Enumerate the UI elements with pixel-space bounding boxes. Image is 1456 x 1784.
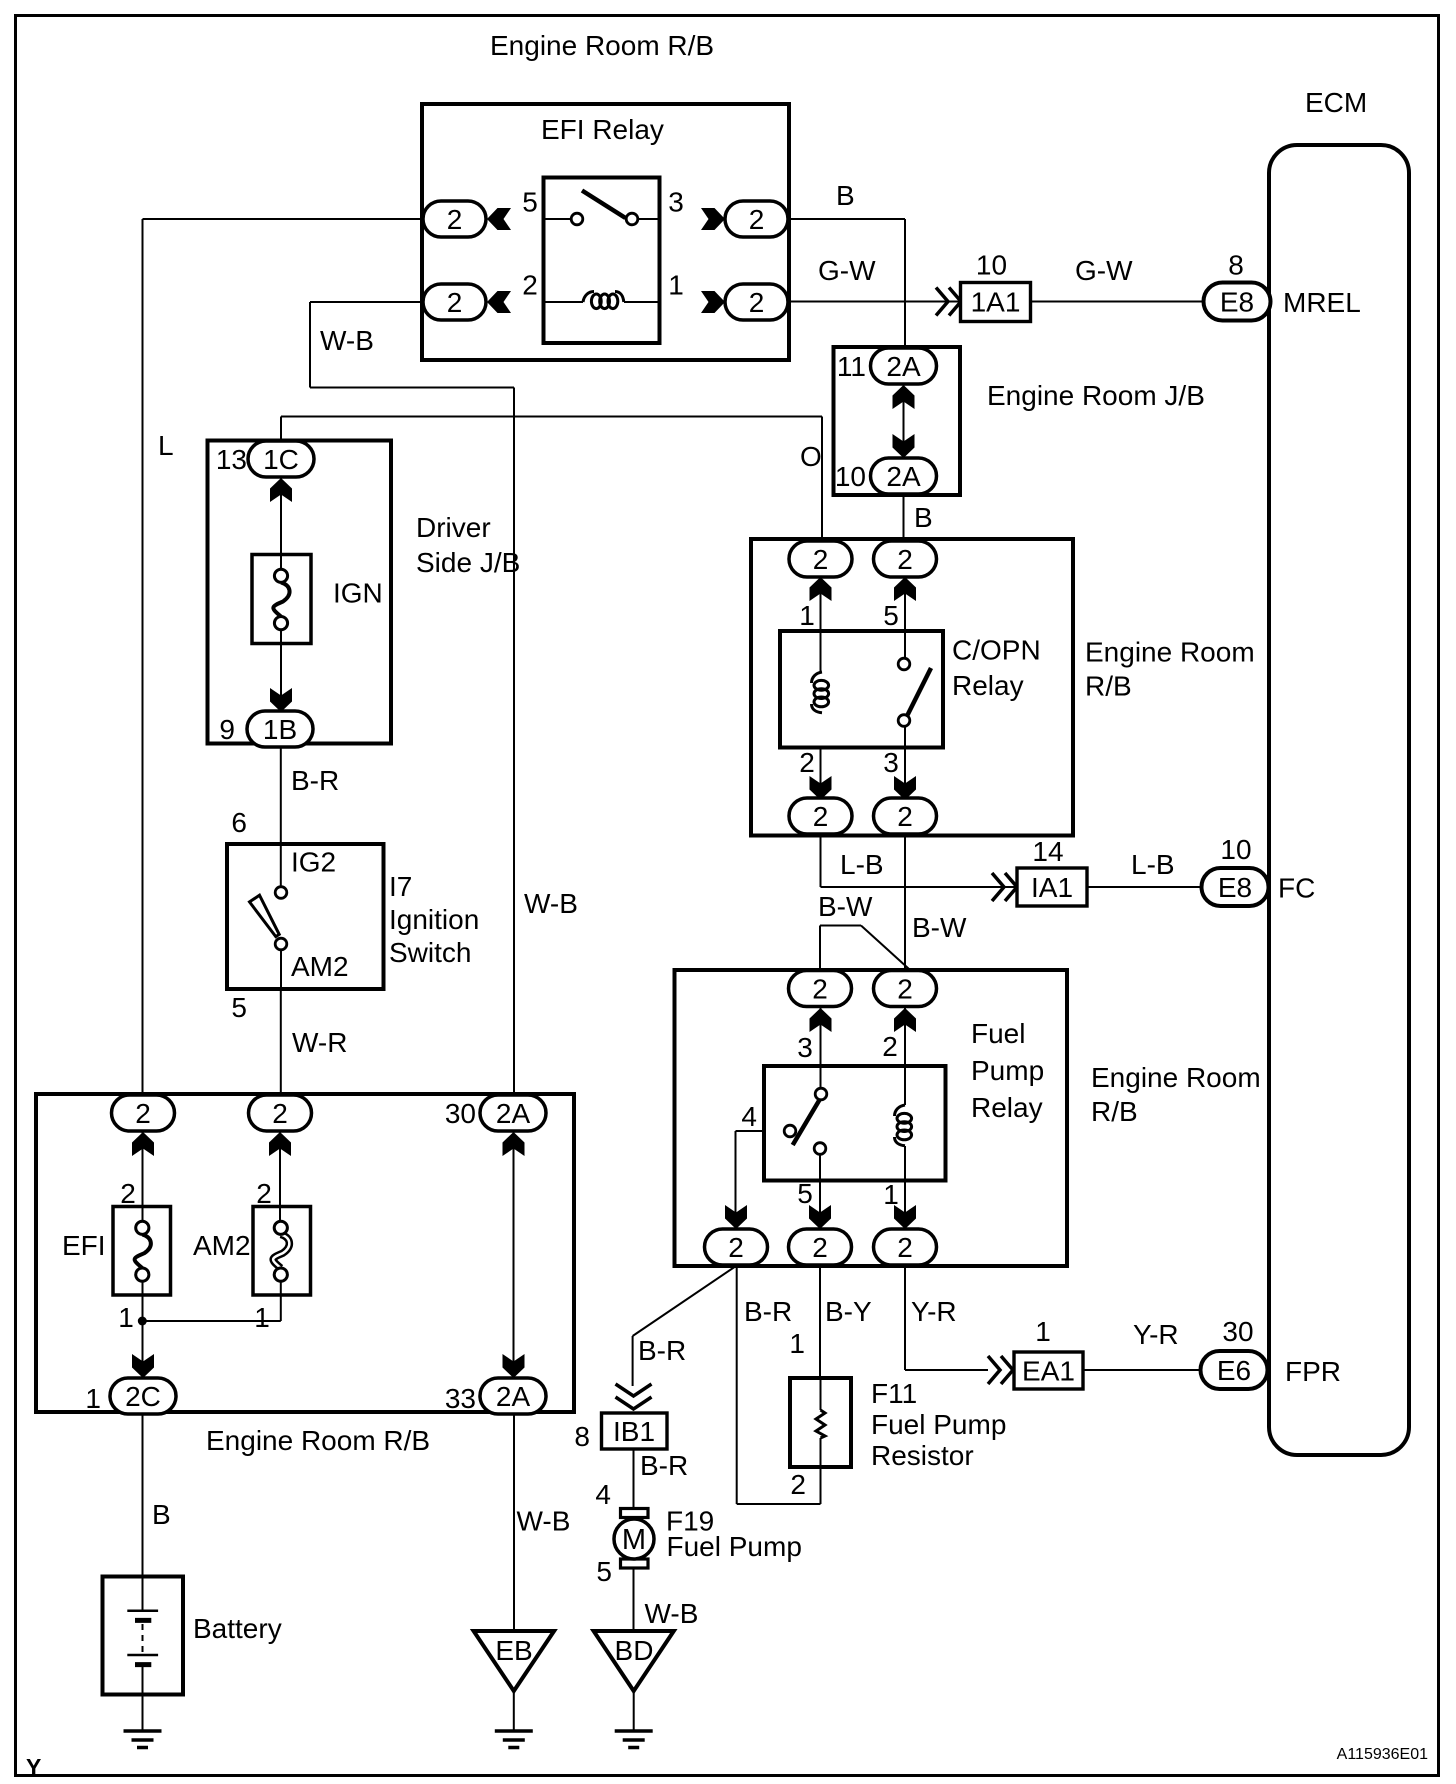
fuel pump motor F19 [614,1509,654,1569]
arrow FP relay pin 4 [725,1205,747,1229]
ground triangle BD [594,1631,674,1691]
svg-text:2: 2 [522,270,538,301]
svg-text:L-B: L-B [840,849,884,880]
svg-text:Fuel: Fuel [971,1018,1025,1049]
Fuel Pump Relay Engine Room R/B box [675,970,1068,1266]
svg-text:2: 2 [812,1232,828,1263]
svg-text:4: 4 [595,1479,611,1510]
svg-text:2: 2 [790,1469,806,1500]
wire B-W branch vertical [819,926,821,972]
svg-text:2: 2 [799,747,815,778]
svg-text:B-R: B-R [640,1450,688,1481]
svg-text:W-B: W-B [320,325,374,356]
connector oval 1B [247,711,313,747]
wire L horizontal from EFI relay pin 5 [143,218,425,220]
arrow up inside Engine Room J/B [893,385,915,409]
svg-text:2: 2 [447,204,463,235]
svg-text:E8: E8 [1218,872,1252,903]
connector oval 1C [248,441,314,477]
svg-text:10: 10 [835,461,866,492]
svg-text:2: 2 [272,1098,288,1129]
svg-text:Battery: Battery [193,1613,282,1644]
svg-text:2A: 2A [886,351,921,382]
svg-text:W-B: W-B [524,888,578,919]
battery box [103,1577,184,1695]
wire W-B vertical to 30 2A [513,388,515,1097]
svg-text:B-Y: B-Y [825,1296,872,1327]
wire B-W branch diagonal [861,926,909,970]
wire EB triangle to ground [513,1691,515,1731]
svg-text:M: M [622,1524,646,1556]
svg-text:Pump: Pump [971,1055,1044,1086]
svg-text:3: 3 [668,187,684,218]
wire L-B horizontal to IA1 [821,886,1018,888]
connector IA1 [1017,868,1087,906]
svg-text:EB: EB [495,1635,532,1666]
svg-text:B-W: B-W [818,891,873,922]
svg-text:10: 10 [1220,834,1251,865]
svg-text:2A: 2A [886,461,921,492]
svg-text:2: 2 [897,801,913,832]
svg-text:B: B [836,180,855,211]
wire FP relay pin2 to coil [904,1006,906,1105]
svg-text:2: 2 [447,287,463,318]
wire B from 10 2A to C/OPN R/B [903,494,905,540]
svg-text:4: 4 [741,1101,757,1132]
wire C/OPN pin5 to switch [904,576,906,658]
svg-text:2: 2 [120,1178,136,1209]
svg-text:Engine Room R/B: Engine Room R/B [206,1425,430,1456]
svg-text:Engine Room J/B: Engine Room J/B [987,380,1205,411]
svg-text:MREL: MREL [1283,287,1361,318]
wire L vertical to Engine Room R/B EFI fuse [142,219,144,1096]
svg-text:EA1: EA1 [1022,1356,1075,1387]
EFI relay inner box [544,178,660,344]
wire B vertical to 11 2A [904,219,906,348]
wire FP relay pin3 to switch [820,1006,822,1088]
connector EA1 [1014,1352,1083,1389]
connector oval 2 (FP relay pin 1) [874,1229,937,1265]
svg-text:2: 2 [749,287,765,318]
wire FP relay switch to pin 5 [819,1156,821,1230]
wire 30 2A to 33 2A [513,1132,515,1377]
wire FP relay pin 4 down [735,1131,737,1229]
wire Y-R horizontal to EA1 [905,1369,988,1371]
wire W-B fuel pump to BD ground [633,1568,635,1631]
svg-text:EFI: EFI [62,1230,106,1261]
wire B from 2C to battery [142,1414,144,1577]
svg-text:13: 13 [216,444,247,475]
connector oval 2A (pin 11) [871,348,937,384]
arrow C/OPN pin 5 [894,577,916,601]
fuse EFI [113,1207,171,1296]
svg-text:9: 9 [219,714,235,745]
connector oval 2 (FP relay pin 2) [874,971,937,1007]
svg-text:Relay: Relay [971,1092,1043,1123]
wire from resistor pin 2 [820,1438,822,1504]
battery cell plates [127,1611,158,1665]
wire IGN fuse to 1B [280,630,282,712]
fuel pump relay switch blade [793,1100,820,1145]
svg-text:Y-R: Y-R [1133,1319,1179,1350]
svg-text:L-B: L-B [1131,849,1175,880]
svg-text:ECM: ECM [1305,87,1367,118]
svg-text:AM2: AM2 [193,1230,251,1261]
wire B-W branch horizontal [820,925,861,927]
connector oval E8 (MREL) [1204,283,1271,321]
svg-text:W-B: W-B [517,1506,571,1537]
junction dot [138,1317,147,1326]
svg-text:Fuel Pump: Fuel Pump [667,1531,802,1562]
svg-text:2A: 2A [496,1098,531,1129]
wire battery to ground [142,1665,144,1731]
svg-text:1: 1 [1035,1316,1051,1347]
wire C/OPN coil to pin 2 [820,713,822,800]
svg-text:1C: 1C [263,444,299,475]
arrow EFI fuse pin 2 [132,1132,154,1156]
arrow to 2C [132,1354,154,1378]
C/OPN relay switch [898,658,910,670]
arrow 30 2A [503,1132,525,1156]
I7 Ignition Switch box [227,844,384,989]
svg-text:2: 2 [812,974,828,1005]
connector oval 2C (pin 1) [110,1378,176,1414]
svg-text:BD: BD [615,1635,654,1666]
wire G-W from 1A1 to E8/MREL [1031,301,1205,303]
svg-text:B-W: B-W [912,912,967,943]
connector oval 2 (C/OPN bottom right) [874,798,937,834]
ignition switch blade [250,895,280,936]
svg-text:2: 2 [135,1098,151,1129]
wire L-B from IA1 to E8/FC [1087,886,1201,888]
svg-text:5: 5 [231,992,247,1023]
svg-text:A115936E01: A115936E01 [1337,1746,1428,1763]
svg-text:8: 8 [574,1421,590,1452]
connector oval E6 (FPR) [1201,1351,1268,1389]
svg-text:5: 5 [883,600,899,631]
EFI relay coil [583,292,624,309]
connector oval 2 (C/OPN bottom left) [789,798,852,834]
svg-text:Switch: Switch [389,937,471,968]
connector 1A1 [961,283,1031,322]
wire L-B from C/OPN pin 2 [820,834,822,887]
ground symbol BD [615,1731,653,1748]
svg-text:1: 1 [799,600,815,631]
wire O horizontal [281,416,822,418]
connector oval 2 (FP relay pin 5) [789,1229,852,1265]
svg-text:1: 1 [789,1328,805,1359]
svg-text:2: 2 [813,544,829,575]
wire B-R diagonal to IB1 [633,1266,736,1336]
connector oval 2 (EFI relay pin 5) [423,201,486,237]
resistor element [816,1410,825,1438]
svg-text:L: L [158,430,174,461]
svg-text:Y: Y [26,1754,41,1780]
wire Y-R from FP relay pin 1 [904,1266,906,1370]
wire FP relay switch to pin 4 [736,1130,784,1132]
svg-text:2C: 2C [125,1381,161,1412]
svg-text:W-B: W-B [645,1598,699,1629]
EFI relay switch contacts [544,218,571,220]
svg-text:AM2: AM2 [291,951,349,982]
arrow C/OPN pin 2 [810,776,832,800]
svg-text:I7: I7 [389,871,412,902]
wire Y-R from EA1 to E6/FPR [1083,1369,1200,1371]
svg-text:IB1: IB1 [613,1416,655,1447]
arrow FP relay pin 1 [894,1205,916,1229]
fuel pump relay coil [895,1105,912,1146]
svg-text:E8: E8 [1220,287,1254,318]
wire B-R horizontal to resistor pin 2 [737,1503,821,1505]
wire W-B horizontal jog [310,387,514,389]
connector oval 2 (FP relay pin 4) [705,1229,768,1265]
wire G-W to 1A1 [787,301,960,303]
EFI relay switch blade [582,191,626,219]
wire inside Engine Room J/B [903,384,905,458]
connector oval 2 (AM2 fuse top) [249,1095,312,1131]
svg-text:2: 2 [897,544,913,575]
wire B-W from C/OPN pin 3 down [904,834,906,971]
wire AM2 to junction [142,1320,280,1322]
connector oval 2 (EFI relay pin 2) [423,284,486,320]
junction chevrons into 1A1 [936,288,948,316]
wire B-R from 1B to ignition switch [280,746,282,886]
svg-text:2: 2 [749,204,765,235]
svg-text:E6: E6 [1217,1355,1251,1386]
svg-text:FPR: FPR [1285,1356,1341,1387]
svg-text:FC: FC [1278,873,1315,904]
svg-text:5: 5 [596,1556,612,1587]
EFI relay coil wire [544,301,584,303]
arrow FP relay pin 3 [810,1008,832,1032]
wire B-R from FP relay pin 4 down [736,1266,738,1504]
junction chevrons into IB1 [616,1384,652,1396]
svg-text:F11: F11 [871,1378,917,1409]
svg-text:1: 1 [118,1302,134,1333]
fuel pump relay inner box [764,1066,946,1181]
svg-text:3: 3 [797,1032,813,1063]
wire BD triangle to ground [633,1691,635,1731]
connector oval 2A (pin 10) [871,458,937,494]
svg-text:IG2: IG2 [291,847,336,878]
svg-text:5: 5 [522,187,538,218]
svg-text:33: 33 [445,1383,476,1414]
svg-text:8: 8 [1228,250,1244,281]
svg-text:B-R: B-R [291,765,339,796]
wire B-R from IB1 to fuel pump [633,1449,635,1509]
svg-text:G-W: G-W [818,255,876,286]
svg-text:2: 2 [256,1178,272,1209]
wire W-B from 33 2A to EB ground [513,1414,515,1631]
connector oval 2 (C/OPN top right) [874,541,937,577]
arrow out of EFI relay pin 3 [701,208,725,230]
Engine Room J/B box [834,347,961,495]
wire B from EFI relay pin 3 [787,218,905,220]
wire W-B from EFI relay pin 2 [310,301,424,303]
svg-text:G-W: G-W [1075,255,1133,286]
connector oval 2A (pin 33) [480,1378,546,1414]
svg-text:1: 1 [85,1383,101,1414]
wire from 1C connector up [280,417,282,443]
wire to EFI fuse [142,1132,144,1221]
arrow FP relay pin 5 [809,1205,831,1229]
svg-text:B: B [914,502,933,533]
fuel pump resistor F11 box [790,1378,851,1467]
svg-text:2: 2 [813,801,829,832]
arrow into EFI relay pin 5 [487,208,511,230]
svg-text:1: 1 [254,1302,270,1333]
C/OPN relay switch blade [908,668,932,715]
svg-text:W-R: W-R [292,1027,347,1058]
wire W-R from ignition switch to R/B [280,951,282,1094]
svg-text:IGN: IGN [333,578,383,609]
connector oval E8 (FC) [1202,868,1269,906]
svg-text:3: 3 [883,747,899,778]
svg-text:Y-R: Y-R [911,1296,957,1327]
svg-text:Engine Room R/B: Engine Room R/B [490,30,714,61]
fuse IGN [252,555,311,644]
svg-text:EFI Relay: EFI Relay [541,114,664,145]
svg-text:Engine Room: Engine Room [1091,1062,1261,1093]
C/OPN relay coil [812,672,829,713]
connector IB1 [602,1413,668,1449]
svg-text:14: 14 [1032,836,1063,867]
ground symbol battery [124,1731,162,1748]
svg-text:Ignition: Ignition [389,904,479,935]
connector oval 2 (C/OPN top left) [789,541,852,577]
connector oval 2 (FP relay pin 3) [789,971,852,1007]
svg-text:Fuel Pump: Fuel Pump [871,1409,1006,1440]
svg-text:1B: 1B [263,714,297,745]
wire O vertical to C/OPN relay pin 1 [821,417,823,542]
svg-text:C/OPN: C/OPN [952,635,1041,666]
connector oval 2 (EFI relay pin 3) [725,201,788,237]
ground triangle EB [474,1631,554,1691]
arrow into EFI relay pin 2 [487,291,511,313]
junction chevrons into IA1 [992,873,1004,901]
fuse AM2 (thick element) [253,1207,311,1296]
svg-text:R/B: R/B [1085,671,1132,702]
wire EFI fuse to 2C [142,1282,144,1377]
Engine Room R/B bottom-left box [36,1094,574,1412]
wire FP relay coil to pin 1 [904,1146,906,1229]
svg-text:6: 6 [231,807,247,838]
svg-text:2: 2 [897,974,913,1005]
arrow C/OPN pin 1 [810,577,832,601]
svg-text:B: B [152,1499,171,1530]
arrow out of EFI relay pin 1 [701,291,725,313]
arrow IGN fuse bottom [270,688,292,712]
fuel pump relay switch [815,1088,827,1100]
svg-text:R/B: R/B [1091,1096,1138,1127]
wire battery internal top [142,1577,144,1611]
svg-text:1: 1 [883,1179,899,1210]
svg-text:2A: 2A [496,1381,531,1412]
arrow IGN fuse top [270,478,292,502]
EFI Relay outer box [422,104,789,360]
svg-text:B-R: B-R [638,1335,686,1366]
connector oval 2 (EFI fuse top) [112,1095,175,1131]
svg-text:Engine Room: Engine Room [1085,637,1255,668]
svg-text:Driver: Driver [416,512,491,543]
svg-text:11: 11 [837,351,866,382]
arrow to 33 2A [503,1354,525,1378]
svg-text:1A1: 1A1 [971,287,1021,318]
connector oval 2 (EFI relay pin 1) [725,284,788,320]
svg-text:2: 2 [897,1232,913,1263]
arrow AM2 fuse pin 2 [269,1132,291,1156]
junction chevrons into EA1 [988,1356,1000,1384]
wire C/OPN switch to pin 3 [904,727,906,800]
svg-text:Relay: Relay [952,670,1024,701]
ECM box [1269,145,1409,1455]
C/OPN inner relay box [780,631,943,748]
svg-text:2: 2 [728,1232,744,1263]
wire B-Y from FP relay pin 5 to resistor [819,1266,821,1410]
svg-text:Resistor: Resistor [871,1440,974,1471]
arrow FP relay pin 2 [894,1008,916,1032]
svg-text:Side J/B: Side J/B [416,547,520,578]
svg-text:5: 5 [797,1178,813,1209]
svg-text:O: O [800,441,822,472]
wire to AM2 fuse [279,1132,281,1221]
svg-text:10: 10 [976,250,1007,281]
wire 1C to IGN fuse [280,478,282,569]
svg-text:IA1: IA1 [1031,872,1073,903]
arrow down inside Engine Room J/B [893,434,915,458]
svg-text:30: 30 [1222,1316,1253,1347]
svg-text:B-R: B-R [744,1296,792,1327]
Driver Side J/B box [208,441,392,744]
wire W-B vertical jog [309,302,311,388]
connector oval 2A (pin 30) [480,1095,546,1131]
svg-text:30: 30 [445,1098,476,1129]
svg-text:2: 2 [882,1031,898,1062]
wire B-R vertical to IB1 [632,1336,634,1386]
C/OPN Engine Room R/B box [751,539,1073,836]
ground symbol EB [495,1731,533,1748]
wire C/OPN pin1 to coil [820,576,822,672]
arrow C/OPN pin 3 [894,776,916,800]
wire AM2 fuse down [280,1282,282,1321]
svg-text:1: 1 [668,270,684,301]
